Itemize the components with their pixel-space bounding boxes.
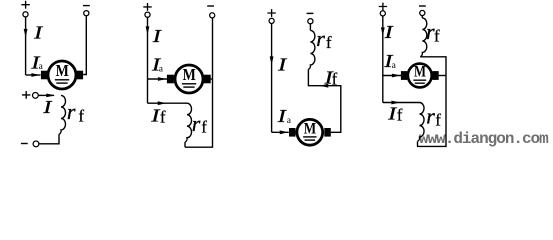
wire field top P1 [38, 94, 54, 96]
svg-text:f: f [160, 108, 166, 127]
wire left vertical P1 [25, 17, 27, 75]
svg-text:M: M [304, 120, 316, 137]
current arrow If P2 [158, 101, 167, 105]
svg-text:r: r [192, 111, 201, 136]
wire into armature P4 [383, 75, 401, 77]
shunt field coil rf P2 [185, 103, 192, 142]
svg-text:M: M [414, 63, 426, 80]
svg-text:I: I [42, 97, 53, 117]
svg-text:I: I [277, 54, 288, 74]
svg-text:I: I [383, 22, 394, 42]
svg-text:r: r [426, 103, 435, 128]
current arrow I P1 [24, 29, 28, 38]
svg-text:r: r [316, 26, 325, 51]
wire terminal to coil P3 [309, 24, 311, 31]
current arrow If P3 [320, 84, 329, 88]
svg-text:f: f [434, 26, 440, 45]
svg-text:M: M [56, 61, 69, 80]
current arrow I P2 [146, 26, 150, 35]
svg-text:f: f [435, 111, 441, 130]
wire shunt field branch P2 [148, 102, 188, 104]
wire shunt coil stub P4 [417, 141, 419, 146]
plus terminal P3 [267, 9, 275, 17]
svg-text:r: r [67, 99, 76, 124]
svg-text:I: I [33, 23, 44, 43]
plus terminal armature supply P1 [21, 1, 29, 9]
wire terminal to series coil P4 [421, 16, 423, 18]
current arrow I P3 [270, 56, 274, 65]
svg-text:f: f [397, 105, 403, 124]
current arrow Ia P1 [31, 73, 40, 77]
svg-text:M: M [183, 65, 196, 84]
wire left vertical P2 [147, 17, 149, 103]
shunt field coil rf P4 bottom [418, 103, 425, 142]
current arrow If P4 [391, 101, 400, 105]
wire left vertical P4 [382, 16, 384, 102]
series field coil rf P3 [308, 30, 315, 69]
svg-text:f: f [201, 118, 207, 137]
wire armature right brush P4 [439, 75, 447, 77]
plus terminal field supply P1 [22, 91, 30, 99]
motor M2 [167, 65, 211, 93]
field rheostat coil rf P1 [59, 95, 66, 134]
motor M3 [289, 119, 331, 145]
wire field bottom P1 [39, 134, 59, 144]
minus terminal armature supply P1 [83, 5, 90, 7]
current arrow Ia P3 [280, 130, 289, 134]
motor M1 [41, 61, 83, 89]
plus terminal P2 [143, 3, 151, 11]
svg-text:www.diangon.com: www.diangon.com [419, 130, 549, 148]
minus terminal P4 [419, 5, 426, 7]
wire right vertical P1 [83, 16, 86, 75]
current arrow Ia P4 [392, 74, 401, 78]
minus terminal P3 [307, 12, 314, 14]
wire shunt field branch P4 [383, 102, 420, 104]
svg-text:I: I [151, 26, 162, 46]
wire coil to right vertical P3 [308, 69, 340, 132]
minus terminal field supply P1 [33, 141, 39, 147]
current arrow Ia P2 [158, 77, 167, 81]
wire into armature P1 [26, 74, 41, 76]
wire right vertical P2 [185, 18, 213, 147]
svg-text:f: f [78, 106, 84, 125]
minus terminal P2 [207, 5, 214, 7]
svg-text:I: I [276, 106, 287, 126]
svg-text:f: f [326, 33, 332, 52]
svg-text:f: f [332, 69, 338, 88]
motor M4 [401, 63, 439, 87]
series field coil rf P4 top [420, 18, 427, 57]
wire right brush stub P2 [211, 78, 213, 80]
current arrow I field P1 [46, 94, 55, 98]
wire coil stub P2 [184, 142, 186, 147]
plus terminal P4 [379, 3, 387, 11]
wire into armature P3 [272, 131, 289, 133]
wire into armature P2 [148, 78, 168, 80]
wire series coil to right vertical P4 [417, 57, 446, 147]
current arrow I P4 [381, 27, 385, 36]
wire left vertical P3 [271, 24, 273, 133]
